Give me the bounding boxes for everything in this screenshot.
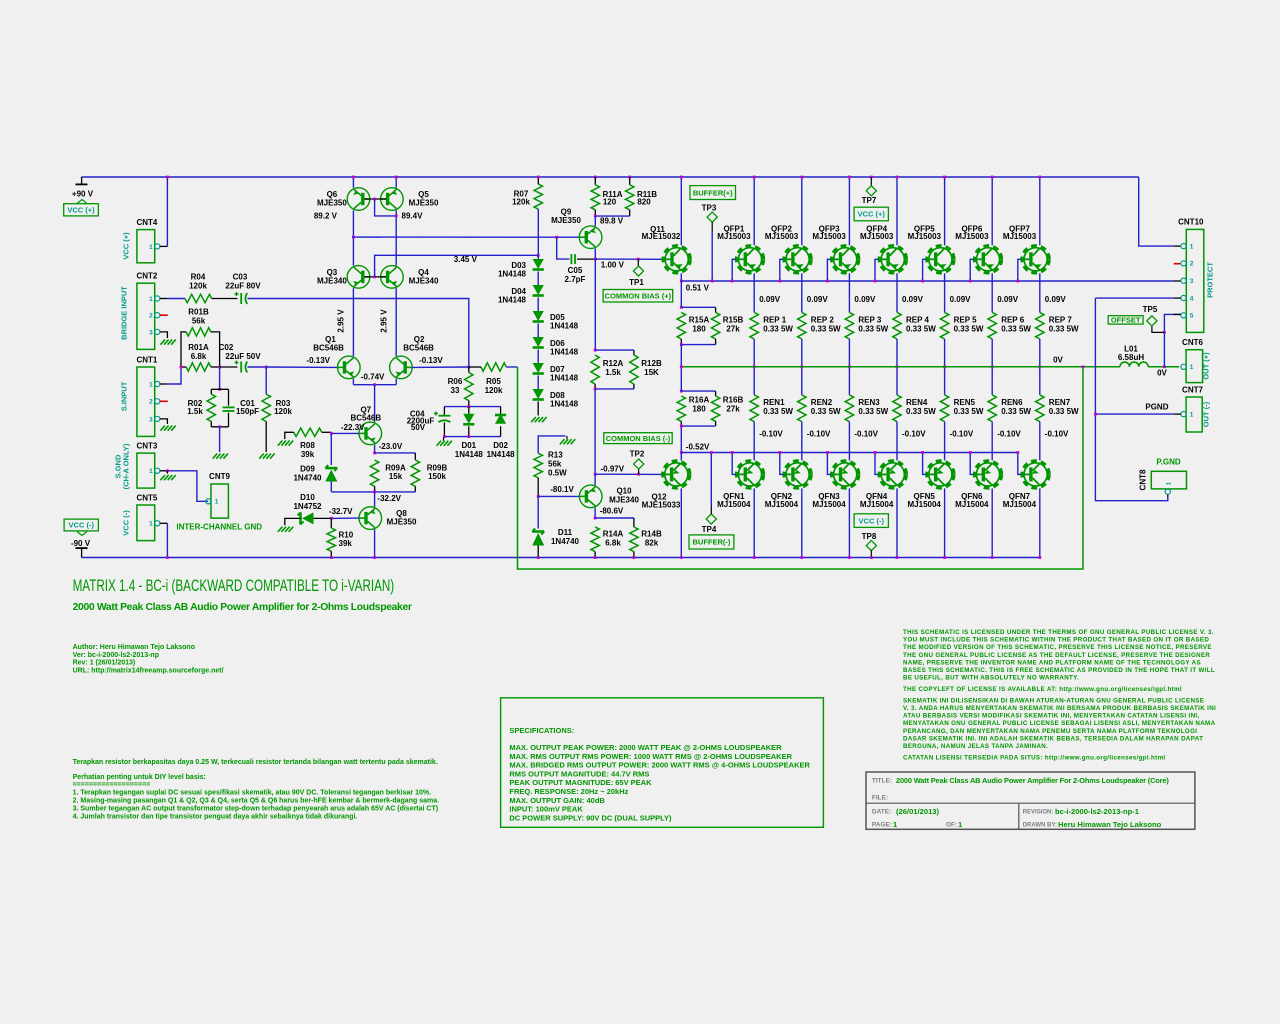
svg-text:DASAR SKEMATIK INI. INI ADALAH: DASAR SKEMATIK INI. INI ADALAH SKEMATIK … <box>903 735 1203 742</box>
svg-text:MJ15003: MJ15003 <box>860 232 894 241</box>
svg-text:1: 1 <box>1190 412 1194 419</box>
svg-text:-80.1V: -80.1V <box>550 485 574 494</box>
svg-text:0.09V: 0.09V <box>1045 295 1067 304</box>
svg-text:R12B: R12B <box>641 359 662 368</box>
svg-text:PROTECT: PROTECT <box>1206 262 1215 298</box>
svg-text:-0.10V: -0.10V <box>997 430 1021 439</box>
svg-text:PGND: PGND <box>1145 403 1168 412</box>
svg-text:0.33 5W: 0.33 5W <box>858 407 888 416</box>
svg-text:BC546B: BC546B <box>350 413 381 422</box>
svg-text:REP 7: REP 7 <box>1049 316 1073 325</box>
svg-text:REP 4: REP 4 <box>906 316 930 325</box>
svg-text:120k: 120k <box>274 407 292 416</box>
svg-text:3: 3 <box>1190 278 1194 285</box>
svg-text:120k: 120k <box>485 386 503 395</box>
svg-text:-0.10V: -0.10V <box>902 430 926 439</box>
svg-text:THE COPYLEFT OF LICENSE IS AVA: THE COPYLEFT OF LICENSE IS AVAILABLE AT:… <box>903 686 1182 693</box>
svg-text:Author: Heru Himawan Tejo Laks: Author: Heru Himawan Tejo Laksono <box>73 644 195 651</box>
svg-text:120: 120 <box>603 198 617 207</box>
svg-text:MAX. BRIDGED RMS OUTPUT POWER:: MAX. BRIDGED RMS OUTPUT POWER: 2000 WATT… <box>509 761 810 770</box>
svg-text:MJ15003: MJ15003 <box>812 232 846 241</box>
svg-text:TP4: TP4 <box>702 525 717 534</box>
svg-text:0.09V: 0.09V <box>997 295 1019 304</box>
svg-text:TP5: TP5 <box>1143 305 1158 314</box>
svg-text:1N4148: 1N4148 <box>550 374 579 383</box>
svg-text:BC546B: BC546B <box>403 343 434 352</box>
svg-text:-32.7V: -32.7V <box>329 507 353 516</box>
svg-text:-0.10V: -0.10V <box>759 430 783 439</box>
svg-text:0.33 5W: 0.33 5W <box>906 325 936 334</box>
svg-text:0.51 V: 0.51 V <box>686 284 710 293</box>
svg-text:THE MODIFIED VERSION OF THIS S: THE MODIFIED VERSION OF THIS SCHEMATIC, … <box>903 644 1212 651</box>
svg-text:CNT1: CNT1 <box>136 356 157 365</box>
svg-text:REP 1: REP 1 <box>763 316 787 325</box>
svg-text:6.8k: 6.8k <box>191 352 207 361</box>
svg-text:OFFSET: OFFSET <box>1111 316 1141 325</box>
svg-text:DC POWER SUPPLY: 90V DC (DUAL: DC POWER SUPPLY: 90V DC (DUAL SUPPLY) <box>509 813 672 822</box>
svg-text:4. Jumlah transistor dan tipe: 4. Jumlah transistor dan tipe transistor… <box>73 814 358 821</box>
svg-text:MJE350: MJE350 <box>387 518 417 527</box>
svg-text:MAX. OUTPUT PEAK POWER: 2000 W: MAX. OUTPUT PEAK POWER: 2000 WATT PEAK @… <box>509 743 782 752</box>
svg-text:VCC (-): VCC (-) <box>122 510 131 536</box>
svg-text:1: 1 <box>1190 364 1194 371</box>
svg-text:MJ15003: MJ15003 <box>717 232 751 241</box>
svg-text:3. Sumber tegangan AC output t: 3. Sumber tegangan AC output transformat… <box>73 806 439 813</box>
svg-text:1N4148: 1N4148 <box>487 450 516 459</box>
svg-text:1N4148: 1N4148 <box>550 322 579 331</box>
svg-text:bc-i-2000-ls2-2013-np-1: bc-i-2000-ls2-2013-np-1 <box>1055 807 1140 816</box>
svg-text:56k: 56k <box>192 317 206 326</box>
svg-text:COMMON BIAS (-): COMMON BIAS (-) <box>606 434 671 443</box>
svg-text:PEAK OUTPUT MAGNITUDE: 65V PEA: PEAK OUTPUT MAGNITUDE: 65V PEAK <box>509 778 652 787</box>
svg-text:MJE350: MJE350 <box>317 198 347 207</box>
svg-text:MJE15032: MJE15032 <box>642 232 681 241</box>
svg-text:MJ15003: MJ15003 <box>955 232 989 241</box>
svg-text:R14A: R14A <box>603 530 624 539</box>
svg-text:1.5k: 1.5k <box>605 368 621 377</box>
svg-text:THE GNU GENERAL PUBLIC LICENSE: THE GNU GENERAL PUBLIC LICENSE AS THE DE… <box>903 652 1210 659</box>
svg-text:OUT (-): OUT (-) <box>1202 401 1211 427</box>
svg-text:-0.10V: -0.10V <box>854 430 878 439</box>
svg-text:R08: R08 <box>300 441 315 450</box>
svg-text:YOU MUST INCLUDE THIS SCHEMATI: YOU MUST INCLUDE THIS SCHEMATIC WITHIN T… <box>903 637 1209 644</box>
svg-text:VCC (+): VCC (+) <box>67 206 95 215</box>
svg-text:-0.52V: -0.52V <box>686 443 710 452</box>
svg-text:VCC (-): VCC (-) <box>69 521 95 530</box>
svg-text:1N4148: 1N4148 <box>550 348 579 357</box>
svg-text:BUFFER(-): BUFFER(-) <box>692 538 730 547</box>
svg-text:6.8k: 6.8k <box>605 539 621 548</box>
svg-text:1N4740: 1N4740 <box>551 537 580 546</box>
svg-text:REN4: REN4 <box>906 398 928 407</box>
svg-text:1: 1 <box>149 521 153 528</box>
svg-text:REP 6: REP 6 <box>1001 316 1025 325</box>
svg-text:NAME, PRESERVE THE INVENTOR NA: NAME, PRESERVE THE INVENTOR NAME AND PLA… <box>903 659 1201 666</box>
svg-text:39k: 39k <box>301 450 315 459</box>
svg-text:MJE15033: MJE15033 <box>642 501 681 510</box>
svg-text:0.09V: 0.09V <box>759 295 781 304</box>
svg-text:3: 3 <box>149 329 153 336</box>
svg-text:===================: =================== <box>73 782 151 789</box>
svg-text:R16B: R16B <box>723 396 744 405</box>
svg-text:R12A: R12A <box>603 359 624 368</box>
svg-text:S.INPUT: S.INPUT <box>120 381 129 411</box>
svg-text:89.4V: 89.4V <box>402 212 424 221</box>
svg-text:0.33 5W: 0.33 5W <box>811 325 841 334</box>
svg-text:0.33 5W: 0.33 5W <box>954 325 984 334</box>
svg-text:2000 Watt Peak Class AB Audio: 2000 Watt Peak Class AB Audio Power Ampl… <box>73 602 412 613</box>
svg-text:REP 5: REP 5 <box>954 316 978 325</box>
svg-text:120k: 120k <box>512 198 530 207</box>
svg-text:820: 820 <box>637 198 651 207</box>
svg-text:27k: 27k <box>726 405 740 414</box>
svg-text:0.33 5W: 0.33 5W <box>858 325 888 334</box>
svg-text:MJE340: MJE340 <box>317 276 347 285</box>
svg-text:2: 2 <box>149 399 153 406</box>
svg-text:2. Masing-masing pasangan Q1 &: 2. Masing-masing pasangan Q1 & Q2, Q3 & … <box>73 798 440 805</box>
svg-text:MJE340: MJE340 <box>409 276 439 285</box>
svg-text:0.33 5W: 0.33 5W <box>906 407 936 416</box>
svg-text:CNT4: CNT4 <box>136 218 157 227</box>
svg-text:D01: D01 <box>461 441 476 450</box>
svg-text:REN1: REN1 <box>763 398 785 407</box>
svg-text:VCC (-): VCC (-) <box>859 516 885 525</box>
svg-text:TP1: TP1 <box>629 278 644 287</box>
svg-text:TP3: TP3 <box>702 204 717 213</box>
svg-text:BUFFER(+): BUFFER(+) <box>693 188 733 197</box>
svg-text:Terapkan resistor berkapasitas: Terapkan resistor berkapasitas daya 0.25… <box>73 759 438 766</box>
svg-text:0.33 5W: 0.33 5W <box>1049 407 1079 416</box>
svg-text:-0.13V: -0.13V <box>419 356 443 365</box>
svg-text:CNT9: CNT9 <box>209 472 230 481</box>
svg-text:PERANCANG, DAN MENYERTAKAN NAM: PERANCANG, DAN MENYERTAKAN NAMA PENEMU S… <box>903 728 1197 735</box>
svg-text:22uF 80V: 22uF 80V <box>225 282 261 291</box>
svg-text:REN7: REN7 <box>1049 398 1071 407</box>
svg-text:R05: R05 <box>486 377 501 386</box>
svg-text:27k: 27k <box>726 325 740 334</box>
svg-text:MJE350: MJE350 <box>551 216 581 225</box>
svg-text:50V: 50V <box>411 423 426 432</box>
svg-text:1N4148: 1N4148 <box>455 450 484 459</box>
svg-text:D10: D10 <box>300 493 315 502</box>
svg-text:MJ15003: MJ15003 <box>765 232 799 241</box>
svg-text:BASES THIS SCHEMATIC. THIS IS: BASES THIS SCHEMATIC. THIS IS FREE SCHEM… <box>903 667 1215 674</box>
svg-text:0.09V: 0.09V <box>950 295 972 304</box>
svg-text:-22.3V: -22.3V <box>341 423 365 432</box>
svg-text:CNT7: CNT7 <box>1182 386 1203 395</box>
svg-text:15K: 15K <box>644 368 659 377</box>
svg-text:22uF 50V: 22uF 50V <box>225 352 261 361</box>
svg-text:1N4148: 1N4148 <box>498 296 527 305</box>
svg-text:CNT2: CNT2 <box>136 272 157 281</box>
svg-text:TITLE:: TITLE: <box>872 778 892 785</box>
svg-text:BC546B: BC546B <box>313 343 344 352</box>
svg-text:DATE:: DATE: <box>872 809 891 816</box>
svg-text:C03: C03 <box>233 273 248 282</box>
svg-text:MATRIX 1.4 - BC-i (BACKWARD CO: MATRIX 1.4 - BC-i (BACKWARD COMPATIBLE T… <box>73 577 395 595</box>
svg-text:150k: 150k <box>428 472 446 481</box>
svg-text:CNT3: CNT3 <box>136 442 157 451</box>
svg-text:-23.0V: -23.0V <box>379 442 403 451</box>
svg-text:R01A: R01A <box>188 343 209 352</box>
svg-text:Rev: 1 (26/01/2013): Rev: 1 (26/01/2013) <box>73 660 136 667</box>
svg-text:1N4740: 1N4740 <box>293 474 322 483</box>
svg-text:Q10: Q10 <box>616 487 632 496</box>
svg-text:180: 180 <box>692 325 706 334</box>
svg-text:1N4148: 1N4148 <box>498 270 527 279</box>
svg-text:D02: D02 <box>493 441 508 450</box>
svg-text:MJ15003: MJ15003 <box>908 232 942 241</box>
svg-text:OF:: OF: <box>946 821 957 828</box>
svg-text:CNT8: CNT8 <box>1139 469 1148 490</box>
svg-text:1: 1 <box>149 381 153 388</box>
svg-text:MAX. OUTPUT GAIN: 40dB: MAX. OUTPUT GAIN: 40dB <box>509 796 605 805</box>
svg-text:VCC (+): VCC (+) <box>858 210 886 219</box>
svg-text:P.GND: P.GND <box>1156 458 1181 467</box>
svg-text:REVISION:: REVISION: <box>1023 810 1054 816</box>
svg-text:0.33 5W: 0.33 5W <box>763 407 793 416</box>
svg-text:2000 Watt Peak Class AB Audio: 2000 Watt Peak Class AB Audio Power Ampl… <box>896 776 1169 785</box>
svg-text:CNT6: CNT6 <box>1182 338 1203 347</box>
svg-text:2.95 V: 2.95 V <box>337 309 346 333</box>
svg-text:-80.6V: -80.6V <box>600 507 624 516</box>
svg-text:TP2: TP2 <box>630 450 645 459</box>
svg-text:1N4148: 1N4148 <box>550 400 579 409</box>
svg-text:R16A: R16A <box>689 396 710 405</box>
svg-text:D11: D11 <box>558 528 573 537</box>
svg-text:REN3: REN3 <box>858 398 880 407</box>
svg-text:VCC (+): VCC (+) <box>122 232 131 260</box>
svg-text:MJ15004: MJ15004 <box>955 500 989 509</box>
svg-text:0V: 0V <box>1053 356 1063 365</box>
svg-text:SKEMATIK INI DILISENSIKAN DI B: SKEMATIK INI DILISENSIKAN DI BAWAH ATURA… <box>903 697 1204 704</box>
svg-text:D09: D09 <box>300 465 315 474</box>
svg-text:1: 1 <box>149 468 153 475</box>
svg-text:1: 1 <box>149 296 153 303</box>
svg-text:THIS SCHEMATIC IS LICENSED UND: THIS SCHEMATIC IS LICENSED UNDER THE THE… <box>903 629 1214 636</box>
svg-text:MAX. RMS OUTPUT RMS POWER: 100: MAX. RMS OUTPUT RMS POWER: 1000 WATT RMS… <box>509 752 792 761</box>
svg-text:CNT10: CNT10 <box>1178 218 1204 227</box>
svg-text:MJ15003: MJ15003 <box>1003 232 1037 241</box>
svg-text:1.5k: 1.5k <box>187 407 203 416</box>
svg-text:1. Terapkan tegangan suplai DC: 1. Terapkan tegangan suplai DC sesuai sp… <box>73 790 431 797</box>
svg-text:BERGUNA, NAMUN JELAS TANPA JAM: BERGUNA, NAMUN JELAS TANPA JAMINAN. <box>903 743 1048 750</box>
svg-text:4: 4 <box>1190 295 1194 302</box>
svg-text:RMS OUTPUT MAGNITUDE: 44.7V RM: RMS OUTPUT MAGNITUDE: 44.7V RMS <box>509 769 649 778</box>
svg-text:FREQ. RESPONSE: 20Hz ~ 20kHz: FREQ. RESPONSE: 20Hz ~ 20kHz <box>509 787 628 796</box>
svg-text:0.5W: 0.5W <box>548 469 567 478</box>
svg-text:89.2 V: 89.2 V <box>314 212 338 221</box>
svg-text:82k: 82k <box>645 539 659 548</box>
svg-text:CATATAN LISENSI TERSEDIA PADA: CATATAN LISENSI TERSEDIA PADA SITUS: htt… <box>903 754 1166 761</box>
svg-text:C02: C02 <box>219 343 234 352</box>
svg-text:C05: C05 <box>568 266 583 275</box>
svg-text:1: 1 <box>1190 243 1194 250</box>
svg-text:6.58uH: 6.58uH <box>1118 353 1144 362</box>
svg-text:COMMON BIAS (+): COMMON BIAS (+) <box>605 291 672 300</box>
svg-text:1N4752: 1N4752 <box>293 502 322 511</box>
svg-text:INPUT: 100mV PEAK: INPUT: 100mV PEAK <box>509 805 583 814</box>
svg-text:0V: 0V <box>1157 369 1167 378</box>
svg-text:PAGE:: PAGE: <box>872 821 892 828</box>
svg-text:FILE:: FILE: <box>872 795 888 802</box>
svg-text:-32.2V: -32.2V <box>377 494 401 503</box>
svg-text:180: 180 <box>692 405 706 414</box>
svg-text:TP8: TP8 <box>862 532 877 541</box>
svg-text:BE USEFUL, BUT WITH ABSOLUTELY: BE USEFUL, BUT WITH ABSOLUTELY NO WARRAN… <box>903 675 1079 682</box>
svg-text:MJ15004: MJ15004 <box>908 500 942 509</box>
svg-text:TP7: TP7 <box>862 196 877 205</box>
svg-text:-90 V: -90 V <box>71 539 91 548</box>
svg-text:0.09V: 0.09V <box>807 295 829 304</box>
svg-text:0.33 5W: 0.33 5W <box>954 407 984 416</box>
svg-text:2.7pF: 2.7pF <box>565 275 586 284</box>
svg-text:ATAU BERBASIS VERSI MODIFIKASI: ATAU BERBASIS VERSI MODIFIKASI SKEMATIK … <box>903 713 1200 720</box>
svg-text:0.33 5W: 0.33 5W <box>763 325 793 334</box>
svg-text:1.00 V: 1.00 V <box>601 261 625 270</box>
svg-text:-0.10V: -0.10V <box>807 430 831 439</box>
svg-text:V. 3. ANDA HARUS MENYERTAKAN S: V. 3. ANDA HARUS MENYERTAKAN SKEMATIK IN… <box>903 705 1216 712</box>
svg-text:MJ15004: MJ15004 <box>812 500 846 509</box>
svg-text:-0.10V: -0.10V <box>1045 430 1069 439</box>
svg-text:2: 2 <box>149 313 153 320</box>
svg-text:Perhatian penting untuk DIY le: Perhatian penting untuk DIY level basis: <box>73 774 206 781</box>
svg-text:MJ15004: MJ15004 <box>717 500 751 509</box>
svg-text:33: 33 <box>451 386 460 395</box>
svg-text:REP 2: REP 2 <box>811 316 835 325</box>
svg-text:0.09V: 0.09V <box>902 295 924 304</box>
svg-text:-0.10V: -0.10V <box>950 430 974 439</box>
svg-text:MJ15004: MJ15004 <box>765 500 799 509</box>
svg-text:REP 3: REP 3 <box>858 316 882 325</box>
svg-text:56k: 56k <box>548 460 562 469</box>
svg-text:0.09V: 0.09V <box>854 295 876 304</box>
svg-text:R04: R04 <box>191 273 206 282</box>
svg-text:MJ15004: MJ15004 <box>860 500 894 509</box>
svg-text:0.33 5W: 0.33 5W <box>1049 325 1079 334</box>
svg-text:2.95 V: 2.95 V <box>380 309 389 333</box>
svg-text:BRIDGE INPUT: BRIDGE INPUT <box>120 286 129 340</box>
svg-text:15k: 15k <box>389 472 403 481</box>
svg-text:CNT5: CNT5 <box>136 494 157 503</box>
svg-text:150pF: 150pF <box>236 407 259 416</box>
svg-text:REN2: REN2 <box>811 398 833 407</box>
svg-text:89.8 V: 89.8 V <box>600 217 624 226</box>
svg-text:3.45 V: 3.45 V <box>454 255 478 264</box>
svg-text:-0.13V: -0.13V <box>306 356 330 365</box>
svg-text:-0.97V: -0.97V <box>601 465 625 474</box>
svg-text:1: 1 <box>1166 481 1173 485</box>
svg-text:R14B: R14B <box>641 530 662 539</box>
svg-text:39k: 39k <box>339 539 353 548</box>
svg-text:R13: R13 <box>548 451 563 460</box>
svg-text:MJE350: MJE350 <box>409 198 439 207</box>
svg-text:URL: http://matrix14freeamp.so: URL: http://matrix14freeamp.sourceforge.… <box>73 667 224 674</box>
svg-text:+90 V: +90 V <box>72 190 94 199</box>
svg-text:INTER-CHANNEL GND: INTER-CHANNEL GND <box>176 523 262 532</box>
svg-text:0.33 5W: 0.33 5W <box>811 407 841 416</box>
svg-text:R15B: R15B <box>723 316 744 325</box>
svg-text:MENYATAKAN GNU GENERAL PUBLIC: MENYATAKAN GNU GENERAL PUBLIC LICENSE SE… <box>903 720 1216 727</box>
svg-text:MJE340: MJE340 <box>609 496 639 505</box>
svg-text:REN6: REN6 <box>1001 398 1023 407</box>
svg-text:3: 3 <box>149 416 153 423</box>
svg-text:Heru Himawan Tejo Laksono: Heru Himawan Tejo Laksono <box>1058 820 1162 829</box>
svg-text:(26/01/2013): (26/01/2013) <box>896 807 940 816</box>
svg-text:-0.74V: -0.74V <box>361 372 385 381</box>
svg-text:R15A: R15A <box>689 316 710 325</box>
svg-text:MJ15004: MJ15004 <box>1003 500 1037 509</box>
svg-text:(CH-A ONLY): (CH-A ONLY) <box>122 443 131 489</box>
svg-text:2: 2 <box>1190 261 1194 268</box>
svg-text:R01B: R01B <box>188 308 209 317</box>
svg-text:R06: R06 <box>448 377 463 386</box>
svg-text:5: 5 <box>1190 313 1194 320</box>
svg-text:1: 1 <box>215 499 219 506</box>
svg-text:120k: 120k <box>189 282 207 291</box>
svg-text:0.33 5W: 0.33 5W <box>1001 407 1031 416</box>
svg-text:1: 1 <box>149 244 153 251</box>
svg-text:REN5: REN5 <box>954 398 976 407</box>
svg-text:OUT (+): OUT (+) <box>1202 352 1211 380</box>
svg-text:DRAWN BY:: DRAWN BY: <box>1023 822 1057 828</box>
svg-text:0.33 5W: 0.33 5W <box>1001 325 1031 334</box>
svg-text:SPECIFICATIONS:: SPECIFICATIONS: <box>509 726 574 735</box>
svg-text:Ver: bc-i-2000-ls2-2013-np: Ver: bc-i-2000-ls2-2013-np <box>73 652 159 659</box>
